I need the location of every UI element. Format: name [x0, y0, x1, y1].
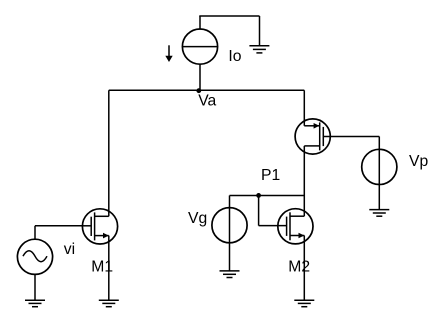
wire: M1 source down — [108, 236, 110, 301]
transistor upper-right (mirrored) — [295, 119, 331, 154]
ground (under Vg) — [220, 271, 240, 278]
wire: M2 drain up through P1 rail to upper transistor — [303, 146, 305, 216]
wire: Io top lead — [199, 16, 201, 30]
svg-text:P1: P1 — [261, 167, 280, 184]
wire: P1 down and right to M2 gate — [259, 196, 287, 226]
transistor M1 — [82, 209, 117, 244]
wire: Va horizontal rail — [109, 89, 304, 91]
wire: Io bottom lead — [199, 64, 201, 91]
svg-text:Va: Va — [198, 93, 216, 110]
ground (under vi) — [25, 300, 45, 307]
current source Io — [182, 29, 217, 64]
node P1 (junction dot) — [256, 193, 261, 198]
wire: vi top lead and to M1 gate — [35, 226, 83, 240]
svg-text:vi: vi — [64, 241, 75, 258]
wire: M2 source down — [303, 236, 305, 301]
voltage source Vp — [362, 137, 397, 210]
wire: vi bottom lead — [34, 274, 36, 300]
ground (under M2) — [294, 300, 314, 307]
wire: upper transistor top lead to Va rail — [303, 90, 305, 126]
ground (under Vp) — [369, 210, 389, 217]
node Va (junction dot) — [196, 88, 201, 93]
wire: down to top ground — [259, 16, 261, 46]
svg-text:Io: Io — [228, 48, 241, 65]
svg-text:Vp: Vp — [409, 153, 428, 170]
wire: left vertical down to M1 drain — [108, 90, 110, 216]
ground (top right) — [249, 46, 269, 53]
current source arrow — [165, 45, 172, 62]
wire: P1 horizontal rail — [230, 195, 305, 197]
ground (under M1) — [99, 300, 119, 307]
transistor M2 — [278, 209, 313, 244]
svg-text:Vg: Vg — [188, 210, 207, 227]
ac source vi — [17, 239, 52, 274]
svg-text:M1: M1 — [91, 258, 113, 275]
svg-text:M2: M2 — [288, 258, 310, 275]
wire: gate to Vp — [331, 136, 380, 138]
voltage source Vg — [212, 196, 247, 271]
wire: top horizontal to ground — [199, 15, 259, 17]
